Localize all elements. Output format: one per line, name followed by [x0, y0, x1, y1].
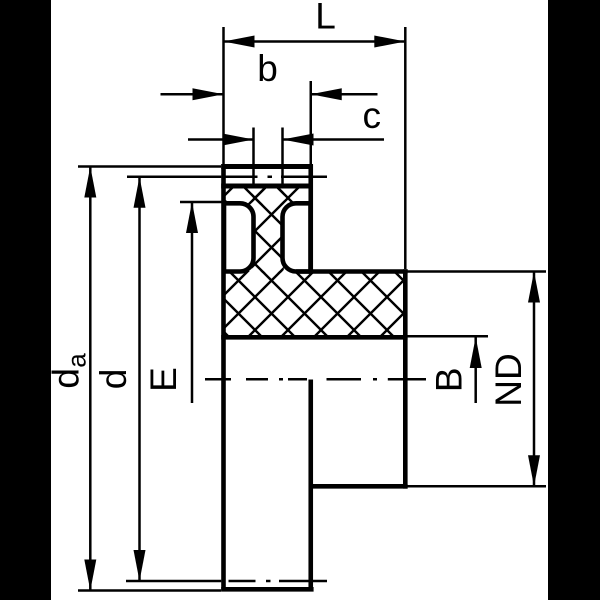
dimension line B — [474, 337, 477, 403]
gear bottom edge — [221, 587, 313, 592]
dimension line b left tail — [161, 93, 224, 96]
extension line d top solid — [127, 176, 221, 179]
svg-text:ND: ND — [488, 353, 529, 406]
web lightening pocket right — [283, 203, 311, 271]
pitch line bottom dash-dot — [229, 580, 328, 583]
hub bottom edge — [309, 484, 408, 489]
gear left face — [221, 164, 226, 591]
extension line da bottom — [78, 589, 221, 592]
extension line c left — [252, 128, 255, 189]
arrow ND bottom — [528, 455, 540, 486]
extension line B — [406, 335, 488, 338]
arrow ND top — [528, 272, 540, 303]
dimension line L — [224, 40, 406, 43]
right border bar — [548, 0, 600, 600]
hatch web column — [252, 188, 284, 273]
web lightening pocket left — [224, 203, 254, 271]
gear right face upper — [308, 164, 313, 274]
svg-text:a: a — [62, 353, 92, 368]
arrow L right — [374, 36, 405, 48]
extension line da top — [78, 165, 221, 168]
svg-text:b: b — [257, 48, 278, 89]
arrow c left — [223, 134, 254, 146]
extension line d bottom solid — [126, 580, 221, 583]
gear tip (addendum) top edge — [221, 164, 313, 169]
arrow L left — [224, 36, 255, 48]
extension line c right — [281, 128, 284, 189]
dimension line c left tail — [188, 138, 254, 141]
hub right face — [403, 269, 408, 488]
dimension line ND — [533, 272, 536, 487]
extension line ND bottom — [408, 485, 547, 488]
dimension line b right tail — [311, 93, 378, 96]
extension line L right — [404, 27, 407, 269]
bore surface line — [221, 335, 407, 340]
arrow d top — [134, 177, 146, 208]
centerline axis dash-dot — [205, 378, 426, 381]
dimension line da — [89, 167, 92, 591]
svg-text:E: E — [143, 367, 184, 392]
svg-text:B: B — [429, 367, 470, 392]
svg-text:d: d — [93, 369, 134, 390]
arrow E — [186, 202, 198, 233]
svg-text:c: c — [363, 95, 382, 136]
left border bar — [0, 0, 51, 600]
pitch line top dash-dot — [221, 176, 327, 179]
arrow b right — [311, 88, 342, 100]
dimension line c right tail — [283, 138, 385, 141]
arrow b left — [193, 88, 224, 100]
arrow d bottom — [134, 550, 146, 581]
svg-text:d: d — [45, 368, 86, 389]
arrow c right — [283, 134, 314, 146]
dimension line d — [138, 177, 141, 581]
arrow B — [470, 337, 482, 368]
extension line L left — [222, 27, 225, 164]
arrow da bottom — [84, 560, 96, 591]
extension line E — [180, 201, 227, 204]
gear root line — [221, 184, 313, 189]
hatch hub block — [222, 271, 407, 338]
hatch rim band under gear teeth — [222, 188, 312, 205]
svg-text:L: L — [315, 0, 336, 36]
gear right face lower — [308, 380, 313, 592]
hub top edge right segment — [296, 269, 408, 274]
dimension line E — [191, 202, 194, 403]
extension line ND top — [408, 270, 547, 273]
extension line b right — [310, 81, 313, 164]
arrow da top — [84, 167, 96, 198]
